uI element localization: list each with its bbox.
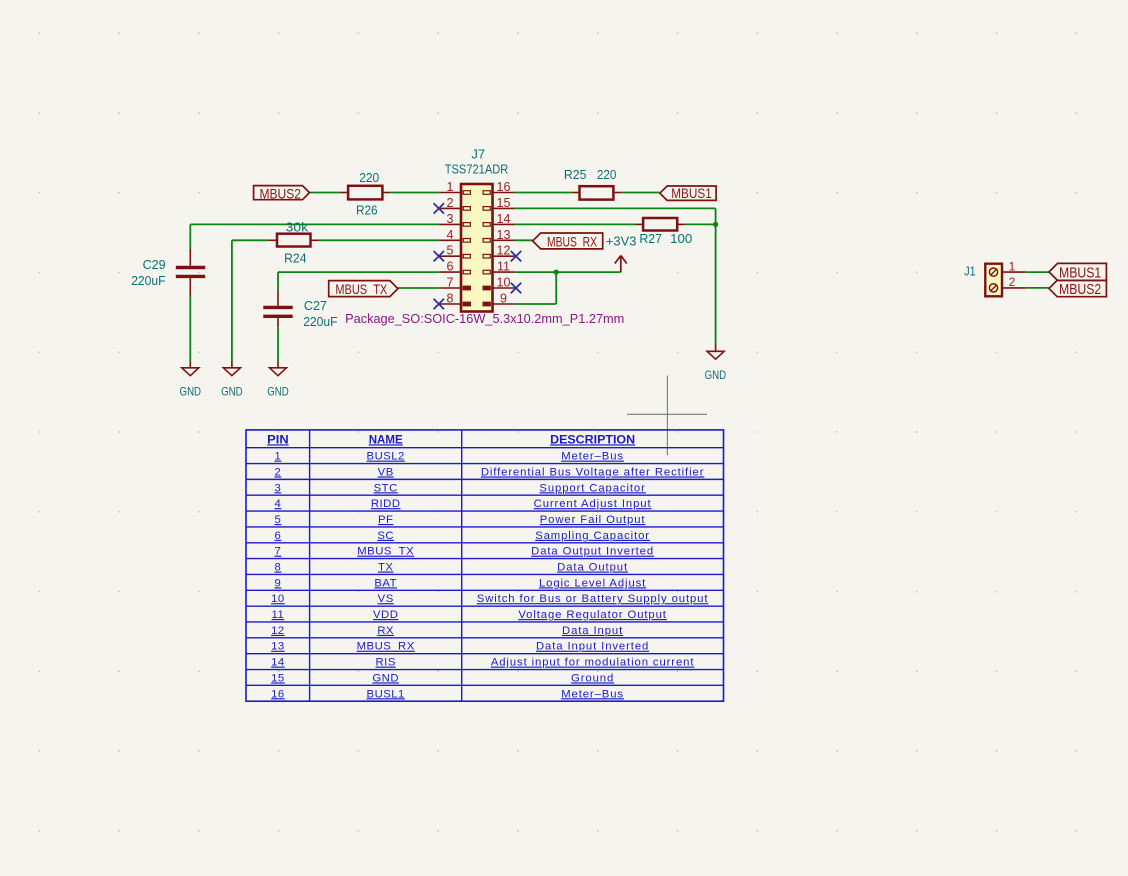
svg-text:MBUS2: MBUS2 <box>259 185 301 201</box>
svg-text:Logic Level Adjust: Logic Level Adjust <box>539 577 646 589</box>
svg-text:30k: 30k <box>286 219 309 234</box>
svg-text:J1: J1 <box>964 265 975 279</box>
svg-text:2: 2 <box>275 466 282 478</box>
svg-text:R24: R24 <box>284 251 306 266</box>
wire R27 to junction <box>685 223 715 225</box>
svg-text:PIN: PIN <box>267 432 289 446</box>
capacitor C27 <box>277 290 279 306</box>
pin 1 <box>439 192 461 194</box>
svg-text:Data Output Inverted: Data Output Inverted <box>531 546 654 558</box>
svg-text:1: 1 <box>275 451 282 463</box>
node MBUS1 global label at J1 <box>1049 263 1106 280</box>
svg-text:Support Capacitor: Support Capacitor <box>539 482 645 494</box>
node MBUS_RX global label <box>533 233 603 249</box>
svg-text:Meter–Bus: Meter–Bus <box>561 451 624 463</box>
pin 15 <box>493 207 515 209</box>
svg-text:5: 5 <box>447 244 454 258</box>
pin 2 <box>439 207 461 209</box>
svg-text:MBUS1: MBUS1 <box>1059 266 1101 282</box>
svg-text:+3V3: +3V3 <box>606 233 637 248</box>
no-connect pin 2 <box>434 203 444 213</box>
ground GND3 <box>277 361 279 368</box>
svg-text:5: 5 <box>275 514 282 526</box>
svg-text:9: 9 <box>275 577 282 589</box>
svg-text:Current Adjust Input: Current Adjust Input <box>534 498 652 510</box>
svg-text:16: 16 <box>497 180 511 194</box>
svg-text:11: 11 <box>497 260 510 274</box>
node MBUS2 global label left <box>254 186 310 200</box>
svg-text:Data Input: Data Input <box>562 625 623 637</box>
svg-text:VDD: VDD <box>373 609 398 621</box>
wire R24 corner down to GND <box>231 240 233 361</box>
svg-text:GND: GND <box>267 385 289 399</box>
wire C27 to GND <box>277 327 279 361</box>
pin 7 <box>439 287 461 289</box>
node MBUS2 global label at J1 <box>1049 280 1106 296</box>
svg-text:10: 10 <box>271 593 285 605</box>
svg-text:Adjust input for modulation cu: Adjust input for modulation current <box>491 657 695 669</box>
svg-text:MBUS_RX: MBUS_RX <box>547 233 597 249</box>
svg-text:Voltage Regulator Output: Voltage Regulator Output <box>518 609 666 621</box>
svg-text:BAT: BAT <box>374 577 397 589</box>
svg-text:GND: GND <box>705 368 727 382</box>
svg-text:15: 15 <box>497 196 511 210</box>
wire C29 to GND <box>189 296 191 362</box>
wire J1 pin1 to MBUS1 <box>1026 271 1049 273</box>
wire R25 to MBUS1 <box>622 192 660 194</box>
svg-text:6: 6 <box>275 530 282 542</box>
wire pin 13 to MBUS_RX <box>514 239 532 241</box>
ground GND1 <box>189 361 191 368</box>
wire J1 pin2 to MBUS2 <box>1026 287 1049 289</box>
svg-text:GND: GND <box>180 385 202 399</box>
ground GND2 <box>231 361 233 368</box>
pin 4 <box>439 239 461 241</box>
svg-text:220: 220 <box>359 170 379 185</box>
svg-text:10: 10 <box>497 276 511 290</box>
svg-text:Meter–Bus: Meter–Bus <box>561 688 624 700</box>
svg-text:4: 4 <box>275 498 282 510</box>
svg-text:15: 15 <box>271 672 285 684</box>
svg-text:Data Input Inverted: Data Input Inverted <box>536 641 649 653</box>
svg-text:12: 12 <box>497 244 511 258</box>
pin 11 <box>493 271 515 273</box>
svg-text:BUSL2: BUSL2 <box>367 451 405 463</box>
svg-text:2: 2 <box>1009 275 1016 289</box>
pin 16 <box>493 192 515 194</box>
power +3V3 <box>615 256 627 273</box>
svg-text:13: 13 <box>271 641 285 653</box>
no-connect pin 8 <box>434 299 444 309</box>
resistor R27 <box>635 223 643 225</box>
svg-text:3: 3 <box>275 482 282 494</box>
op-amp U1 : IC J7 TSS721ADR body <box>461 184 493 312</box>
no-connect pin 5 <box>434 251 444 261</box>
svg-text:11: 11 <box>272 609 285 621</box>
svg-text:GND: GND <box>372 672 399 684</box>
wire junction down <box>555 272 557 304</box>
node MBUS_TX global label <box>329 281 398 297</box>
svg-text:DESCRIPTION: DESCRIPTION <box>550 432 635 446</box>
svg-text:SC: SC <box>377 530 394 542</box>
wire pin 15 horizontal <box>514 207 715 209</box>
svg-text:J7: J7 <box>471 147 485 162</box>
svg-text:PF: PF <box>378 514 393 526</box>
svg-text:Data Output: Data Output <box>557 562 628 574</box>
svg-text:3: 3 <box>447 212 454 226</box>
svg-text:Ground: Ground <box>571 672 614 684</box>
svg-text:RIS: RIS <box>376 657 396 669</box>
svg-text:GND: GND <box>221 385 243 399</box>
pin 14 <box>493 223 515 225</box>
svg-text:VB: VB <box>378 466 394 478</box>
pin 13 <box>493 239 515 241</box>
svg-text:BUSL1: BUSL1 <box>367 688 405 700</box>
svg-text:220uF: 220uF <box>303 314 337 329</box>
svg-text:220: 220 <box>597 167 617 182</box>
wire pin 3 horizontal <box>190 223 438 225</box>
svg-text:Package_SO:SOIC-16W_5.3x10.2mm: Package_SO:SOIC-16W_5.3x10.2mm_P1.27mm <box>345 311 624 326</box>
pin 6 <box>439 271 461 273</box>
svg-text:1: 1 <box>1009 259 1016 273</box>
pin 8 <box>439 303 461 305</box>
svg-text:TX: TX <box>378 562 393 574</box>
svg-text:16: 16 <box>271 688 285 700</box>
svg-text:14: 14 <box>271 657 285 669</box>
J1 screw terminal 1 <box>989 268 997 276</box>
svg-text:8: 8 <box>275 562 282 574</box>
svg-text:1: 1 <box>447 180 454 194</box>
wire pin 9 <box>514 303 556 305</box>
node MBUS1 global label top right <box>660 186 716 200</box>
pin table frame <box>246 430 724 701</box>
pin 9 <box>493 303 515 305</box>
svg-text:TSS721ADR: TSS721ADR <box>445 161 509 176</box>
svg-text:MBUS_RX: MBUS_RX <box>357 641 415 653</box>
svg-text:14: 14 <box>497 212 511 226</box>
no-connect pin 10 <box>511 283 521 293</box>
wire MBUS2 to R26 <box>310 192 341 194</box>
wire pin 6 horizontal <box>278 271 439 273</box>
svg-text:R27: R27 <box>639 231 662 246</box>
pin 3 <box>439 223 461 225</box>
wire R24 to pin 4 <box>319 239 439 241</box>
svg-text:VS: VS <box>378 593 394 605</box>
ground GND4 <box>715 345 717 352</box>
wire vertical to GND right <box>715 208 717 344</box>
svg-text:100: 100 <box>670 231 692 246</box>
svg-text:MBUS_TX: MBUS_TX <box>357 546 414 558</box>
svg-text:NAME: NAME <box>369 432 403 446</box>
svg-text:STC: STC <box>374 482 398 494</box>
wire pin3 corner down to C29 <box>189 224 191 249</box>
J1 pin 2 <box>1002 287 1026 289</box>
wire R26 to pin 1 <box>390 192 439 194</box>
pin 5 <box>439 255 461 257</box>
svg-text:R26: R26 <box>356 203 378 218</box>
svg-text:C29: C29 <box>143 257 166 272</box>
J1 screw terminal 2 <box>989 284 997 292</box>
svg-text:7: 7 <box>447 276 454 290</box>
capacitor C29 <box>189 249 191 266</box>
svg-text:8: 8 <box>447 292 454 306</box>
junction dot pin11 <box>554 270 559 275</box>
junction dot right <box>713 222 718 227</box>
connector J1 body <box>985 264 1002 297</box>
svg-text:RX: RX <box>377 625 394 637</box>
wire pin 16 to R25 <box>514 192 571 194</box>
svg-text:13: 13 <box>497 228 511 242</box>
svg-text:MBUS1: MBUS1 <box>671 185 712 201</box>
wire MBUS_TX to pin 7 <box>398 287 439 289</box>
svg-text:Switch for Bus or Battery Supp: Switch for Bus or Battery Supply output <box>477 593 709 605</box>
J1 pin 1 <box>1002 271 1026 273</box>
svg-text:220uF: 220uF <box>131 273 165 288</box>
pin 10 <box>493 287 515 289</box>
resistor R26 <box>341 192 349 194</box>
wire pin 11 to +3V3 <box>514 271 620 273</box>
resistor R25 <box>571 192 579 194</box>
no-connect pin 12 <box>511 251 521 261</box>
svg-text:2: 2 <box>447 196 454 210</box>
svg-text:9: 9 <box>500 292 507 306</box>
svg-text:Differential Bus Voltage after: Differential Bus Voltage after Rectifier <box>481 466 705 478</box>
svg-text:MBUS_TX: MBUS_TX <box>335 281 387 297</box>
svg-text:Sampling Capacitor: Sampling Capacitor <box>535 530 650 542</box>
pin 12 <box>493 255 515 257</box>
wire pin6 corner down to C27 <box>277 272 279 290</box>
wire pin 14 to R27 <box>514 223 635 225</box>
svg-text:Power Fail Output: Power Fail Output <box>540 514 646 526</box>
svg-text:MBUS2: MBUS2 <box>1059 282 1101 298</box>
resistor R24 <box>268 239 276 241</box>
wire corner to R24 <box>232 239 268 241</box>
svg-text:RIDD: RIDD <box>371 498 401 510</box>
svg-text:4: 4 <box>447 228 454 242</box>
svg-text:12: 12 <box>271 625 285 637</box>
cursor crosshair <box>666 376 668 456</box>
svg-text:R25: R25 <box>564 167 587 182</box>
svg-text:C27: C27 <box>304 298 327 313</box>
svg-text:6: 6 <box>447 260 454 274</box>
svg-text:7: 7 <box>275 546 282 558</box>
